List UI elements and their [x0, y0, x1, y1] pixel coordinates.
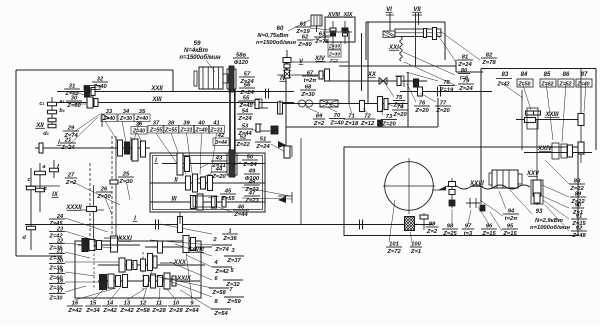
svg-text:Z=24: Z=24: [237, 116, 252, 122]
svg-text:81: 81: [462, 55, 468, 61]
svg-text:Z=55: Z=55: [149, 128, 162, 134]
svg-text:Z=23: Z=23: [244, 198, 259, 204]
svg-text:c: c: [27, 177, 30, 183]
svg-text:97: 97: [465, 224, 472, 230]
svg-text:63: 63: [319, 32, 326, 38]
svg-text:47: 47: [248, 191, 256, 197]
svg-text:80: 80: [461, 68, 468, 74]
svg-text:Z=37: Z=37: [226, 258, 241, 264]
svg-text:Z=30: Z=30: [119, 116, 132, 122]
svg-text:Z=42: Z=42: [214, 269, 229, 275]
svg-text:Z=24: Z=24: [458, 86, 473, 92]
svg-text:Z=12: Z=12: [360, 121, 375, 127]
svg-text:Z=58: Z=58: [211, 290, 226, 296]
svg-text:79: 79: [463, 79, 470, 85]
svg-text:32: 32: [97, 77, 104, 83]
svg-text:89: 89: [575, 192, 582, 198]
svg-text:Z=42: Z=42: [497, 82, 510, 88]
svg-text:n=1500об/мин: n=1500об/мин: [179, 54, 221, 61]
svg-text:N=4кВт: N=4кВт: [184, 48, 209, 54]
svg-text:Z=64: Z=64: [184, 308, 199, 314]
svg-text:86: 86: [563, 72, 570, 78]
svg-text:Z=74: Z=74: [214, 247, 229, 253]
svg-text:77: 77: [440, 101, 447, 107]
svg-text:Z=31: Z=31: [180, 128, 193, 134]
svg-text:Z=52: Z=52: [559, 82, 572, 88]
svg-text:43: 43: [215, 156, 223, 162]
svg-text:Z=15: Z=15: [502, 231, 517, 237]
svg-text:70: 70: [334, 113, 341, 119]
svg-text:Z=80: Z=80: [297, 42, 312, 48]
svg-text:90: 90: [575, 203, 582, 209]
svg-text:96: 96: [486, 224, 493, 230]
svg-text:73: 73: [386, 114, 393, 120]
svg-text:99: 99: [429, 222, 436, 228]
svg-text:Z=72: Z=72: [386, 249, 401, 255]
svg-text:62: 62: [302, 35, 309, 41]
svg-text:Z=40: Z=40: [92, 84, 107, 90]
svg-text:Z=1: Z=1: [329, 58, 339, 64]
svg-text:71: 71: [348, 114, 354, 120]
svg-text:68: 68: [305, 85, 312, 91]
svg-text:Z=55: Z=55: [220, 196, 235, 202]
svg-text:Ф120: Ф120: [234, 60, 249, 66]
svg-text:72: 72: [364, 114, 371, 120]
svg-text:44: 44: [215, 167, 223, 173]
svg-text:101: 101: [389, 242, 399, 248]
svg-text:Z=40: Z=40: [102, 116, 115, 122]
svg-text:52: 52: [240, 135, 247, 141]
svg-text:Z=2: Z=2: [313, 121, 325, 127]
svg-text:Z=44: Z=44: [233, 212, 248, 218]
svg-text:Z=58: Z=58: [135, 308, 150, 314]
svg-text:46: 46: [237, 205, 245, 211]
svg-text:53: 53: [242, 124, 249, 130]
svg-text:87: 87: [581, 72, 588, 78]
svg-text:30: 30: [71, 96, 78, 102]
svg-text:56: 56: [244, 83, 251, 89]
svg-text:82: 82: [486, 53, 493, 59]
svg-text:Z=30: Z=30: [118, 179, 133, 185]
svg-text:Z=2: Z=2: [426, 229, 438, 235]
svg-text:Z=34: Z=34: [85, 308, 100, 314]
svg-text:Z=40: Z=40: [195, 128, 208, 134]
svg-text:55: 55: [243, 96, 250, 102]
svg-text:54: 54: [242, 109, 249, 115]
svg-text:Z=22: Z=22: [235, 142, 250, 148]
svg-text:Z=40: Z=40: [132, 129, 145, 135]
svg-text:10: 10: [173, 301, 180, 307]
svg-text:Z=24: Z=24: [255, 144, 270, 150]
svg-text:Z=40: Z=40: [329, 121, 344, 127]
svg-text:85: 85: [544, 72, 551, 78]
svg-text:78: 78: [443, 80, 450, 86]
svg-text:Z=18: Z=18: [344, 121, 359, 127]
svg-text:98: 98: [447, 224, 454, 230]
svg-text:Z=78: Z=78: [314, 39, 329, 45]
svg-text:92: 92: [576, 226, 583, 232]
svg-text:26: 26: [100, 187, 108, 193]
svg-text:88: 88: [574, 179, 581, 185]
svg-text:Z=1: Z=1: [393, 103, 404, 109]
svg-text:Z=42: Z=42: [119, 308, 134, 314]
svg-text:n=1000об/мин: n=1000об/мин: [530, 224, 570, 231]
svg-text:16: 16: [72, 301, 79, 307]
svg-text:1: 1: [228, 229, 231, 235]
svg-text:Z=40: Z=40: [577, 82, 590, 88]
svg-text:N=2,9кВт: N=2,9кВт: [535, 218, 563, 224]
svg-text:94: 94: [508, 209, 515, 215]
svg-text:Z=42: Z=42: [102, 308, 117, 314]
svg-text:Z=25: Z=25: [442, 231, 457, 237]
svg-text:29: 29: [67, 126, 75, 132]
svg-text:51: 51: [260, 137, 266, 143]
svg-text:49: 49: [248, 169, 256, 175]
svg-text:59: 59: [193, 40, 201, 47]
svg-text:93: 93: [536, 209, 543, 215]
svg-text:Z=20: Z=20: [381, 122, 396, 128]
svg-text:Z=50: Z=50: [518, 82, 531, 88]
svg-text:3=44: 3=44: [215, 140, 227, 146]
svg-text:Z=20: Z=20: [435, 108, 450, 114]
svg-text:Z=42: Z=42: [67, 308, 82, 314]
svg-text:95: 95: [507, 224, 514, 230]
svg-text:25: 25: [122, 172, 130, 178]
svg-text:15: 15: [90, 301, 97, 307]
svg-text:76: 76: [419, 101, 426, 107]
svg-text:Z=20: Z=20: [211, 174, 226, 180]
svg-text:13: 13: [124, 301, 131, 307]
svg-text:t=2π: t=2π: [505, 216, 519, 222]
svg-text:Z=20: Z=20: [392, 112, 407, 118]
svg-text:14: 14: [107, 301, 114, 307]
svg-text:Z=30: Z=30: [49, 296, 64, 302]
svg-text:n=1500об/мин: n=1500об/мин: [256, 39, 296, 46]
svg-text:61: 61: [300, 22, 306, 28]
svg-text:a: a: [42, 164, 45, 170]
svg-text:Z=55: Z=55: [164, 128, 177, 134]
svg-text:11: 11: [156, 301, 162, 307]
svg-text:69: 69: [316, 114, 323, 120]
svg-text:Z=62: Z=62: [541, 82, 554, 88]
svg-text:N=0,75кВт: N=0,75кВт: [257, 33, 288, 39]
svg-text:60: 60: [277, 25, 284, 32]
svg-text:67: 67: [307, 71, 314, 77]
svg-text:57: 57: [244, 72, 251, 78]
svg-text:Z=15: Z=15: [481, 231, 496, 237]
svg-text:Z=20: Z=20: [414, 108, 429, 114]
svg-text:Z=48: Z=48: [571, 233, 586, 239]
svg-text:Z=24: Z=24: [242, 162, 257, 168]
svg-text:t=2π: t=2π: [304, 78, 318, 84]
svg-text:75: 75: [396, 95, 403, 101]
svg-text:Z=32: Z=32: [225, 282, 240, 288]
svg-text:Z=28: Z=28: [151, 308, 166, 314]
svg-text:100: 100: [411, 242, 421, 248]
svg-text:45: 45: [224, 189, 232, 195]
svg-text:91: 91: [576, 214, 582, 220]
svg-text:Z=1: Z=1: [410, 249, 421, 255]
svg-text:12: 12: [140, 301, 147, 307]
svg-text:83: 83: [502, 72, 509, 78]
svg-text:84: 84: [521, 72, 528, 78]
svg-text:Z=30: Z=30: [328, 52, 340, 58]
svg-text:Z=78: Z=78: [481, 60, 496, 66]
svg-text:Z=30: Z=30: [328, 44, 340, 50]
svg-text:Z=36: Z=36: [222, 236, 237, 242]
svg-text:27: 27: [67, 173, 75, 179]
svg-text:50: 50: [247, 155, 254, 161]
svg-text:t=3: t=3: [464, 231, 473, 237]
svg-text:Z=19: Z=19: [439, 88, 454, 94]
svg-text:48: 48: [248, 180, 256, 186]
svg-text:Z=28: Z=28: [168, 308, 183, 314]
svg-text:58в: 58в: [236, 53, 246, 59]
svg-text:31: 31: [69, 84, 75, 90]
svg-text:Z=54: Z=54: [213, 311, 228, 317]
svg-text:Z=59: Z=59: [226, 299, 241, 305]
svg-text:Z=30: Z=30: [300, 92, 315, 98]
svg-text:21: 21: [64, 138, 71, 144]
